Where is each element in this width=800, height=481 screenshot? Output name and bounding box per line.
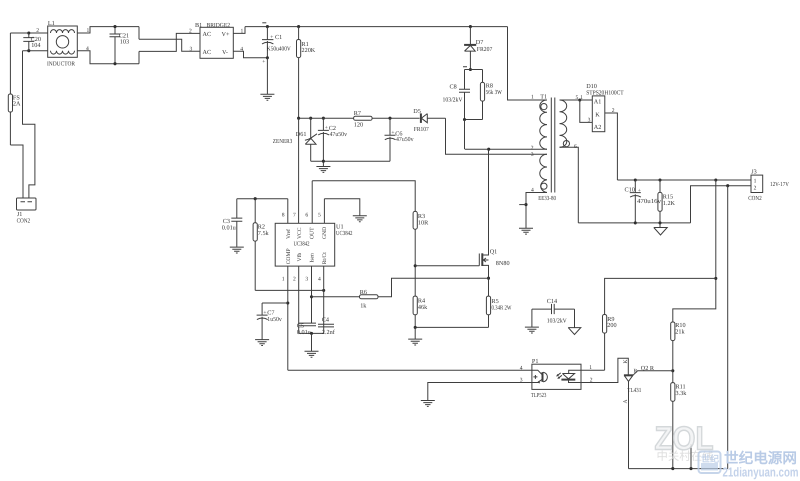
svg-text:103: 103 (120, 38, 129, 45)
svg-text:3: 3 (531, 152, 534, 158)
wire J3 pin2 return (691, 186, 752, 223)
wire primary bottom pin2 (465, 148, 547, 150)
wire VCC rail right (372, 117, 420, 119)
wire zener/C2/C6 bottom bar (311, 160, 390, 162)
wire stub at watermark (690, 444, 692, 469)
svg-text:世纪: 世纪 (701, 454, 719, 464)
capacitor C10 470u16v (625, 178, 663, 222)
wire to J1 pin1 (10, 145, 23, 198)
svg-text:3: 3 (305, 277, 308, 283)
ground below C2 (316, 161, 330, 172)
svg-text:V+: V+ (222, 31, 230, 38)
svg-text:21k: 21k (675, 329, 685, 336)
svg-text:D7: D7 (476, 39, 484, 46)
svg-text:C4: C4 (322, 317, 329, 324)
svg-text:J3: J3 (751, 169, 757, 176)
wire HV bus rail (245, 26, 508, 28)
svg-text:46k: 46k (418, 304, 428, 311)
wire OUT to gate resistor (312, 181, 415, 212)
wire snubber to primary bottom (464, 120, 466, 150)
node C20 top junction (27, 31, 30, 34)
svg-text:EE33-80: EE33-80 (538, 195, 556, 202)
svg-text:A: A (623, 399, 629, 403)
svg-text:56k 3W: 56k 3W (486, 89, 502, 96)
svg-text:FR107: FR107 (414, 126, 429, 133)
svg-text:K: K (595, 111, 600, 118)
svg-text:2.2nf: 2.2nf (322, 329, 336, 336)
svg-text:2: 2 (754, 185, 757, 191)
svg-text:VCC: VCC (297, 227, 303, 239)
resistor R11 3.3k (671, 371, 688, 469)
wire Vref rail (237, 198, 288, 200)
svg-text:8: 8 (282, 213, 285, 219)
svg-text:C8: C8 (450, 84, 457, 91)
svg-text:OUT: OUT (310, 227, 316, 239)
svg-text:4: 4 (520, 365, 523, 371)
wire COMP to opto pin4 (288, 369, 532, 371)
svg-text:K50u400V: K50u400V (267, 45, 291, 52)
svg-text:+: + (263, 310, 266, 316)
svg-text:+: + (270, 35, 273, 41)
capacitor C20 (23, 33, 41, 51)
capacitor C7 1u50v (257, 303, 288, 339)
wire opto pin3 to ground (428, 383, 532, 401)
svg-text:3: 3 (190, 47, 193, 53)
svg-text:B1: B1 (195, 22, 202, 29)
wire D5 anode to T1 pin3 (446, 118, 548, 154)
svg-text:CON2: CON2 (17, 218, 31, 225)
svg-text:D5: D5 (413, 108, 421, 115)
svg-text:C1: C1 (275, 34, 282, 41)
wire R2 to pin4 Rt/Ct (255, 289, 324, 291)
capacitor C8 103/2kV (443, 70, 471, 120)
wire pin1 COMP line (287, 266, 289, 370)
resistor R8 56k 3W (480, 70, 502, 120)
ground at pin5 (353, 216, 367, 222)
svg-text:10R: 10R (418, 219, 429, 226)
wire aux bottom pin4 (526, 193, 547, 229)
svg-text:4: 4 (531, 188, 534, 194)
ground below R4 (408, 327, 422, 345)
ground below C1 (260, 58, 274, 100)
svg-text:ZENER3: ZENER3 (273, 138, 293, 145)
svg-text:A1: A1 (594, 99, 602, 106)
svg-text:200: 200 (607, 322, 616, 329)
wire J3 return to bottom rail (727, 186, 729, 469)
LED (569, 370, 581, 373)
node snubber top (469, 68, 472, 71)
wire crossover to bridge pin3 (139, 27, 200, 52)
svg-text:UC3842: UC3842 (336, 230, 353, 237)
svg-text:TL431: TL431 (627, 387, 641, 394)
transformer T1 EE33-80 (465, 27, 583, 235)
svg-text:120: 120 (354, 122, 363, 129)
svg-text:R: R (634, 368, 638, 374)
dual diode D10 STPS20H100CT (580, 83, 624, 180)
wire mains top line (10, 32, 47, 34)
node gate (414, 264, 417, 267)
svg-text:4: 4 (318, 277, 321, 283)
svg-text:K: K (623, 359, 629, 363)
svg-text:0.34R 2W: 0.34R 2W (492, 304, 512, 311)
ground triangle at C14 right (568, 309, 581, 334)
svg-text:UC3842: UC3842 (294, 240, 310, 247)
transistor Q1 8N80 (479, 149, 509, 278)
svg-text:1: 1 (531, 95, 534, 101)
diode D5 FR107 (413, 108, 445, 133)
svg-text:104: 104 (31, 42, 40, 49)
svg-text:0.01u: 0.01u (222, 224, 236, 231)
wire gate (415, 265, 479, 267)
ground below pin4 (519, 228, 533, 234)
watermark 21dianyuan logo square (699, 452, 721, 474)
fuse FS 2A (8, 33, 21, 145)
svg-text:1: 1 (754, 178, 757, 184)
svg-text:COMP: COMP (286, 248, 292, 264)
svg-text:103/2kV: 103/2kV (547, 317, 567, 324)
node R9 feed (714, 277, 717, 280)
aux winding (540, 154, 547, 192)
wire opto pin1 to R9 (581, 369, 605, 371)
svg-text:AC: AC (203, 31, 212, 38)
IC U1 UC3842 (275, 213, 352, 283)
svg-text:7.5k: 7.5k (258, 230, 270, 237)
svg-text:FR207: FR207 (477, 46, 493, 53)
wire bridge V- to C1 bottom (233, 51, 267, 58)
node output junction (714, 178, 717, 181)
resistor R15 1.2K (658, 178, 676, 222)
svg-text:+: + (638, 188, 641, 194)
capacitor C2 47u50v (318, 117, 348, 162)
svg-text:CON2: CON2 (748, 195, 762, 202)
ground below C3 (230, 247, 244, 253)
phototransistor (532, 370, 542, 375)
node C20 bottom junction (27, 49, 30, 52)
svg-text:2: 2 (612, 108, 615, 114)
svg-text:2: 2 (293, 277, 296, 283)
svg-text:0.01u: 0.01u (297, 329, 311, 336)
wire pin3 Isen line (311, 266, 313, 323)
primary winding top (508, 27, 548, 100)
wire VCC rail left (299, 117, 354, 119)
node secondary top (578, 98, 581, 101)
wire bridge V+ to HV rail (233, 27, 245, 34)
capacitor C3 0.01u (222, 199, 243, 247)
svg-text:2: 2 (36, 28, 39, 34)
svg-text:2: 2 (531, 145, 534, 151)
resistor R9 200 (603, 315, 617, 371)
wire pin2 Vfb line (298, 266, 300, 333)
ground below C5/C4 (305, 333, 319, 357)
wire C5/C4 bottom bar (299, 332, 324, 334)
svg-text:C14: C14 (547, 298, 557, 305)
wire output bottom rail (578, 222, 690, 224)
svg-text:1.2K: 1.2K (663, 200, 676, 207)
svg-text:D61: D61 (296, 131, 307, 138)
shunt regulator Q2 TL431 (623, 359, 673, 468)
wire pin5 to ground (324, 199, 359, 216)
svg-text:+: + (391, 130, 394, 136)
svg-text:GND: GND (322, 227, 328, 239)
resistor R1 220K (297, 25, 316, 118)
capacitor C1 K50u400V (262, 23, 291, 65)
svg-text:+: + (262, 59, 265, 65)
connector J1 CON2 (17, 198, 37, 225)
svg-text:3: 3 (588, 117, 591, 123)
diode D7 FR207 (464, 25, 492, 69)
wire snubber bottom bar (465, 119, 483, 121)
wire mains lower line (23, 50, 48, 52)
svg-text:7: 7 (293, 213, 296, 219)
svg-text:5: 5 (318, 213, 321, 219)
wire opto pin2 to TL431 cathode (581, 358, 628, 382)
secondary winding (560, 100, 567, 147)
svg-text:6: 6 (574, 144, 577, 150)
svg-text:6: 6 (305, 213, 308, 219)
svg-text:3.3k: 3.3k (676, 390, 688, 397)
svg-text:2A: 2A (13, 101, 21, 108)
svg-text:103/2kV: 103/2kV (443, 97, 463, 104)
capacitor C5 0.01u (297, 323, 316, 337)
svg-text:Isen: Isen (310, 253, 316, 263)
wire output rail (617, 179, 751, 181)
svg-text:1: 1 (282, 277, 285, 283)
capacitor C6 47u50v (385, 117, 415, 162)
svg-text:220K: 220K (302, 47, 316, 54)
zener D61 ZENER3 (273, 117, 317, 162)
wire L1 pin1 to C21 top rail (77, 27, 139, 33)
svg-text:L1: L1 (48, 20, 55, 27)
LED arrows (557, 373, 561, 376)
resistor R3 10R (413, 211, 429, 296)
resistor R6 1k (312, 278, 489, 309)
wire L1 pin4 to C21 bottom rail (77, 51, 139, 64)
svg-text:1k: 1k (360, 302, 367, 309)
ground triangle at R15 (654, 223, 667, 235)
svg-text:47u50v: 47u50v (330, 131, 348, 138)
svg-text:INDUCTOR: INDUCTOR (47, 61, 76, 68)
watermark ZOL logo (655, 419, 714, 463)
svg-text:21dianyuan.com: 21dianyuan.com (723, 465, 799, 480)
ground below C7 (255, 340, 269, 346)
svg-text:Vfb: Vfb (297, 253, 303, 262)
core (551, 98, 555, 193)
svg-text:T1: T1 (540, 94, 547, 101)
resistor R10 21k (671, 322, 686, 371)
wire bottom return rail (629, 468, 728, 470)
wire to J1 pin2 (23, 51, 35, 198)
wire to R9 (605, 278, 716, 314)
connector J3 CON2 (748, 169, 789, 202)
svg-text:47u50v: 47u50v (396, 136, 414, 143)
wire R4/R5 bottom (415, 326, 488, 328)
svg-text:Q2 R: Q2 R (641, 365, 655, 372)
inductor L1 (common-mode choke) (36, 20, 89, 68)
wire pin7 VCC line (298, 118, 300, 223)
ground at C14 left (525, 309, 539, 333)
svg-text:V-: V- (222, 49, 228, 56)
svg-text:C10: C10 (625, 186, 635, 193)
svg-text:+: + (325, 125, 328, 131)
svg-text:Vref: Vref (286, 229, 292, 239)
resistor R7 120 (354, 110, 373, 128)
svg-text:R7: R7 (354, 110, 361, 117)
svg-text:Rt/Ct: Rt/Ct (322, 252, 328, 265)
svg-text:12V-17V: 12V-17V (770, 181, 789, 188)
svg-text:AC: AC (203, 49, 212, 56)
wire pin5 GND stub (323, 199, 325, 224)
wire pin6 OUT stub (311, 181, 313, 224)
capacitor C21 (110, 25, 130, 65)
resistor R4 46k (413, 296, 428, 327)
svg-text:Q1: Q1 (490, 249, 498, 256)
wire crossover to bridge pin2 (139, 33, 200, 63)
svg-text:STPS20H100CT: STPS20H100CT (586, 90, 624, 97)
optocoupler P1 TLP523 (520, 358, 593, 399)
node current sense (487, 277, 490, 280)
wire pin4 RtCt line (323, 266, 325, 333)
svg-text:BRIDGE2: BRIDGE2 (207, 22, 231, 29)
wire pin8 Vref stub (287, 199, 289, 224)
resistor R2 7.5k (253, 199, 269, 291)
wire output to divider (673, 180, 716, 322)
svg-text:8N80: 8N80 (496, 260, 510, 267)
svg-text:5: 5 (576, 95, 579, 101)
capacitor C4 2.2nf (318, 317, 336, 337)
svg-text:2: 2 (189, 29, 192, 35)
ground at opto pin3 (421, 401, 435, 407)
capacitor C14 103/2kV (532, 298, 575, 324)
wire snubber top bar (463, 67, 483, 70)
node divider junction (671, 369, 674, 372)
bridge rectifier B1 BRIDGE2 (189, 22, 244, 59)
svg-text:P1: P1 (532, 358, 539, 365)
svg-text:TLP523: TLP523 (531, 392, 547, 399)
svg-text:R6: R6 (360, 289, 367, 296)
svg-text:1u50v: 1u50v (267, 316, 282, 323)
svg-text:A2: A2 (594, 124, 602, 131)
resistor R5 0.34R 2W (486, 278, 511, 327)
